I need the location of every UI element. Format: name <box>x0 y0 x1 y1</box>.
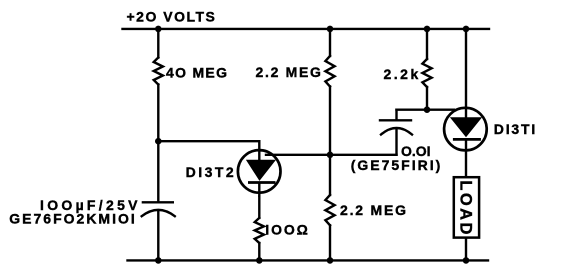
svg-text:DI3TI: DI3TI <box>494 121 537 137</box>
svg-text:2.2 MEG: 2.2 MEG <box>256 64 323 80</box>
wire: R5 bottom to ground rail <box>258 243 260 260</box>
wire: C1 bottom to ground rail <box>157 211 159 260</box>
svg-text:IOOΩ: IOOΩ <box>265 222 310 238</box>
junction: +20V rail / R3 <box>424 26 431 33</box>
load box <box>454 177 479 237</box>
svg-text:DI3T2: DI3T2 <box>186 164 237 180</box>
svg-text:LOAD: LOAD <box>456 180 474 236</box>
wire: R3 bottom to node C <box>426 87 428 110</box>
wire: D13T2 cathode to R5 top <box>258 197 260 218</box>
wire: node A horizontal to D13T2 anode <box>158 141 259 150</box>
capacitor C2 0.01 top plate <box>380 119 411 121</box>
wire: D13T1 cathode to LOAD top <box>465 152 467 178</box>
transistor Q1 D13T1 (PUT) <box>444 107 487 152</box>
resistor R2 2.2 MEG (upper) <box>325 56 334 87</box>
wire: lead from +20V rail to R2 top <box>329 29 331 56</box>
svg-text:(GE75FIRI): (GE75FIRI) <box>351 157 443 173</box>
svg-text:+2O VOLTS: +2O VOLTS <box>127 9 217 25</box>
svg-text:2.2k: 2.2k <box>384 66 421 82</box>
wire: R4 bottom to ground rail <box>329 225 331 260</box>
transistor Q2 D13T2 (PUT) <box>238 149 281 197</box>
wire: R2 bottom to node B <box>329 87 331 155</box>
junction: ground rail / R5 <box>256 257 263 264</box>
wire: C2 top plate stub up to node C <box>395 110 397 121</box>
svg-text:4O MEG: 4O MEG <box>166 65 228 81</box>
wire: R1 bottom to node A and on to C1 top plate <box>157 85 159 203</box>
wire: LOAD bottom to ground rail <box>465 238 467 261</box>
junction: ground rail / LOAD <box>463 257 470 264</box>
wire: lead from +20V rail to R3 top <box>426 29 428 59</box>
capacitor C2 0.01 bottom curved plate <box>381 128 412 135</box>
junction: ground rail / C1 <box>155 257 162 264</box>
junction: node A (R1/C1/D13T2 anode) <box>155 138 162 145</box>
wire: +20V rail down to D13T1 anode <box>465 29 467 107</box>
wire: lead from +20V rail to R1 top <box>157 29 159 58</box>
resistor R4 2.2 MEG (lower) <box>325 195 334 225</box>
junction: +20V rail / D13T1 anode <box>463 26 470 33</box>
wire: D13T2 gate to node B to C2 bottom <box>266 154 397 156</box>
resistor R5 100 ohm <box>255 218 264 243</box>
resistor R1 40 MEG <box>154 58 163 85</box>
junction: node B (R2/R4/gate wire) <box>327 152 334 159</box>
wire: ground bottom rail <box>128 259 489 261</box>
wire: node C to D13T1 gate <box>397 108 455 110</box>
junction: +20V rail / R1 <box>155 26 162 33</box>
capacitor C1 100uF top plate <box>143 201 173 203</box>
capacitor C1 100uF bottom curved plate <box>142 210 175 216</box>
junction: ground rail / R4 <box>327 257 334 264</box>
junction: +20V rail / R2 <box>327 26 334 33</box>
svg-text:GE76FO2KMIOI: GE76FO2KMIOI <box>9 210 136 226</box>
wire: node B to R4 top <box>329 155 331 195</box>
junction: node C (R3/C2/D13T1 gate) <box>424 106 431 113</box>
svg-text:2.2 MEG: 2.2 MEG <box>340 202 408 218</box>
wire: +20V top supply rail <box>123 28 490 30</box>
resistor R3 2.2k <box>422 59 431 87</box>
wire: stub from gate wire up to C2 bottom plate <box>395 129 397 155</box>
